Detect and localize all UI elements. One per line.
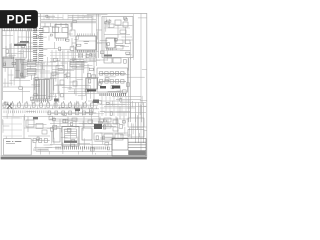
- wire: [100, 104, 130, 106]
- relay K1: [53, 128, 60, 142]
- terminal strip TS1: [4, 111, 48, 114]
- U6 inner: [65, 129, 77, 138]
- wire: [91, 16, 93, 36]
- wire: [57, 62, 59, 95]
- node cluster H: [94, 124, 102, 129]
- wire: [63, 58, 65, 100]
- wire: [37, 63, 39, 79]
- resistor R2: [79, 54, 82, 57]
- wire: [2, 116, 99, 118]
- wire: [119, 107, 121, 120]
- wire: [97, 14, 99, 58]
- capacitor C12: [26, 120, 34, 127]
- diode D5: [42, 130, 47, 134]
- title block dark rows: [128, 151, 145, 155]
- transformer T2 winding a: [27, 60, 36, 67]
- wire: [23, 117, 25, 141]
- wire: [81, 62, 83, 101]
- U5 pin cluster: [87, 90, 96, 92]
- wire: [50, 23, 52, 27]
- wire: [38, 15, 55, 17]
- wire: [91, 119, 93, 124]
- wire bus: [28, 28, 30, 62]
- ic U7: [82, 128, 92, 140]
- wire: [101, 96, 103, 116]
- U2 pins: [107, 48, 113, 50]
- wire: [72, 42, 76, 44]
- wire: [100, 132, 128, 134]
- connector J2 pins: [100, 93, 125, 96]
- wire: [75, 119, 77, 128]
- wire: [36, 151, 112, 153]
- resistor R14: [108, 24, 114, 28]
- wire: [120, 102, 146, 104]
- capacitor C3: [62, 28, 68, 33]
- wire: [50, 144, 112, 146]
- wire: [40, 63, 42, 79]
- wire: [50, 93, 99, 95]
- wire: [107, 119, 109, 126]
- wire: [50, 118, 128, 120]
- wire: [52, 15, 54, 20]
- wire: [71, 38, 73, 48]
- node cluster C: [93, 100, 99, 104]
- resistor R15: [36, 124, 43, 129]
- terminal strip TS2: [34, 149, 48, 152]
- wire: [63, 50, 65, 62]
- wire: [50, 123, 120, 125]
- wire: [36, 70, 50, 72]
- wire: [50, 52, 96, 54]
- wire: [59, 119, 61, 126]
- wire: [135, 103, 137, 144]
- connector J1 pins: [3, 28, 37, 31]
- wire: [103, 17, 105, 57]
- transformer T2 winding b: [27, 69, 36, 76]
- wire: [75, 58, 77, 96]
- wire: [43, 15, 45, 20]
- node cluster F: [75, 108, 80, 111]
- ic U5: [86, 78, 98, 89]
- wire: [54, 85, 90, 87]
- wire: [79, 50, 81, 62]
- resistor R13: [120, 30, 126, 34]
- wire: [87, 15, 89, 20]
- resistor R7: [52, 72, 56, 76]
- resistor R19: [99, 119, 104, 122]
- node cluster A2: [20, 41, 29, 43]
- resistor R17: [63, 120, 68, 123]
- wire: [96, 14, 98, 58]
- wire: [24, 127, 50, 129]
- regulator U4: [55, 25, 68, 39]
- wire: [104, 27, 130, 29]
- svg-text:PDF: PDF: [7, 13, 32, 27]
- wire: [67, 50, 69, 62]
- component stubs: [5, 101, 96, 109]
- transistor Q1: [115, 20, 121, 25]
- ic U1: [76, 36, 96, 50]
- capacitor C17: [128, 130, 144, 138]
- wire: [117, 25, 119, 38]
- wire: [70, 23, 72, 27]
- resistor row RN4: [47, 111, 96, 115]
- resistor R20: [104, 118, 111, 122]
- small component sprinkle: [3, 15, 129, 151]
- resistor R21: [104, 124, 111, 128]
- wire: [112, 96, 141, 98]
- wire: [92, 15, 94, 20]
- wire: [41, 20, 96, 22]
- wire: [28, 135, 50, 137]
- wire: [2, 108, 99, 110]
- ic U6: [62, 127, 79, 147]
- wire: [50, 77, 99, 79]
- wire: [71, 50, 73, 62]
- wire: [143, 103, 145, 144]
- T3 terminals: [36, 100, 47, 103]
- shield box SH1: [102, 17, 133, 58]
- wire: [41, 22, 96, 24]
- wire: [41, 60, 43, 78]
- wire: [7, 67, 9, 87]
- wire: [104, 50, 130, 52]
- resistor R12: [125, 40, 130, 44]
- node cluster A: [14, 44, 26, 46]
- wire: [17, 31, 19, 59]
- diode D2: [60, 80, 64, 85]
- wire: [128, 58, 130, 122]
- diode bridge DB1: [7, 104, 12, 109]
- wire: [9, 31, 11, 59]
- resistor R11: [116, 46, 123, 50]
- wire: [100, 107, 130, 109]
- resistor row RN2: [99, 72, 127, 76]
- transformer T3: [35, 80, 50, 100]
- wire: [2, 48, 40, 50]
- wire: [51, 58, 53, 100]
- wire: [3, 91, 30, 93]
- wire: [87, 64, 89, 94]
- wire: [83, 117, 85, 129]
- wire: [60, 23, 62, 27]
- wire: [129, 58, 131, 122]
- capacitor C1: [43, 27, 49, 33]
- wire: [52, 126, 116, 128]
- U1 bottom pins: [78, 50, 95, 53]
- U1 top pins: [78, 33, 95, 36]
- wire: [51, 50, 53, 62]
- inductor L1: [3, 57, 14, 67]
- wire: [44, 23, 46, 27]
- wire: [99, 117, 101, 125]
- wire: [36, 65, 60, 67]
- wire: [68, 15, 92, 17]
- wire: [100, 111, 130, 113]
- wire: [3, 86, 36, 88]
- wire: [50, 55, 96, 57]
- resistor R8: [66, 73, 70, 77]
- wire: [46, 15, 48, 20]
- capacitor C19: [115, 134, 123, 140]
- wire: [50, 58, 96, 60]
- wire mesh: [3, 15, 147, 155]
- diode D1: [70, 30, 75, 36]
- wire: [3, 129, 22, 131]
- wire: [77, 15, 79, 20]
- capacitor C5: [56, 66, 64, 74]
- wire: [125, 27, 127, 44]
- capacitor C2: [53, 27, 59, 33]
- wire: [90, 53, 92, 58]
- wire: [3, 123, 22, 125]
- wire: [100, 100, 130, 102]
- notes box: [4, 139, 32, 155]
- wire: [52, 120, 100, 122]
- wire: [62, 15, 64, 20]
- wire: [36, 61, 56, 63]
- wire: [27, 117, 29, 133]
- wire: [9, 44, 11, 57]
- capacitor C6: [70, 60, 84, 67]
- wire: [115, 117, 117, 125]
- wire: [41, 19, 96, 21]
- wire: [93, 50, 95, 62]
- wire: [72, 15, 74, 20]
- title block: [112, 139, 146, 157]
- wire: [68, 16, 92, 18]
- PDF badge overlay: [0, 10, 38, 28]
- wire: [5, 46, 7, 57]
- wire: [100, 137, 128, 139]
- wire: [31, 75, 33, 80]
- capacitor C18: [104, 134, 113, 140]
- capacitor row: [32, 139, 50, 143]
- wire: [3, 117, 22, 119]
- wire: [109, 96, 111, 116]
- notes text: [6, 141, 21, 144]
- wire: [50, 113, 104, 115]
- wire: [69, 62, 71, 91]
- wire: [85, 50, 87, 62]
- capacitor C9: [104, 58, 112, 63]
- resistor ladder RN1: [33, 29, 43, 61]
- U4 pins: [57, 38, 66, 41]
- wire: [67, 15, 69, 20]
- wire: [55, 50, 57, 62]
- SH1 pad row: [104, 55, 112, 57]
- wire: [78, 53, 80, 58]
- wire: [55, 23, 57, 27]
- U1 label text: [84, 41, 90, 42]
- wire: [48, 16, 50, 19]
- resistor R18: [72, 118, 77, 121]
- transformer T3 shield: [34, 78, 52, 101]
- wire: [46, 63, 48, 79]
- node cluster B: [54, 99, 59, 102]
- diode D3: [73, 81, 77, 86]
- ic U10: [2, 31, 26, 59]
- wire: [57, 15, 59, 20]
- wire: [40, 14, 42, 28]
- shield box SH2: [97, 68, 128, 92]
- transformer T1 primary: [15, 60, 25, 79]
- diode D6: [88, 120, 93, 123]
- wire: [19, 78, 21, 87]
- wire: [96, 42, 102, 44]
- capacitor C14: [94, 133, 102, 140]
- wire: [86, 53, 88, 58]
- resistor R3: [86, 55, 89, 58]
- wire: [138, 103, 140, 144]
- U6 bottom pins: [56, 147, 107, 150]
- diode row D10-D17: [2, 103, 98, 107]
- wire: [104, 34, 130, 36]
- wire: [43, 63, 45, 79]
- wire: [21, 31, 23, 59]
- capacitor C10: [113, 58, 121, 63]
- wire: [123, 113, 125, 127]
- wire: [3, 135, 22, 137]
- wire: [93, 58, 95, 100]
- resistor R4: [92, 54, 95, 57]
- wire: [113, 96, 115, 116]
- wire: [59, 50, 61, 62]
- wire: [121, 96, 123, 116]
- U6 pads: [64, 141, 77, 143]
- ic U2: [106, 38, 115, 48]
- capacitor C16: [128, 118, 144, 127]
- wire: [82, 15, 84, 20]
- wire: [50, 61, 96, 63]
- wire: [116, 99, 141, 101]
- wire: [13, 31, 15, 59]
- wire: [104, 106, 146, 108]
- wire: [11, 117, 13, 139]
- wire: [5, 31, 7, 59]
- wire: [89, 50, 91, 62]
- resistor R10: [116, 40, 123, 44]
- diode D7: [113, 120, 118, 124]
- node cluster D: [100, 86, 106, 89]
- wire: [125, 96, 127, 116]
- wire: [94, 53, 96, 58]
- wire: [117, 96, 119, 116]
- resistor row RN3: [99, 80, 127, 84]
- wire: [96, 29, 102, 31]
- wire: [1, 31, 3, 100]
- node cluster E: [112, 86, 120, 89]
- transistor Q2: [123, 22, 128, 27]
- wire: [65, 23, 67, 27]
- wire: [53, 117, 55, 129]
- wire: [67, 117, 69, 127]
- wire: [104, 112, 146, 114]
- diode D8: [113, 127, 118, 131]
- node cluster G: [33, 117, 38, 119]
- wire: [52, 69, 84, 71]
- wire: [82, 53, 84, 58]
- wire: [105, 96, 107, 116]
